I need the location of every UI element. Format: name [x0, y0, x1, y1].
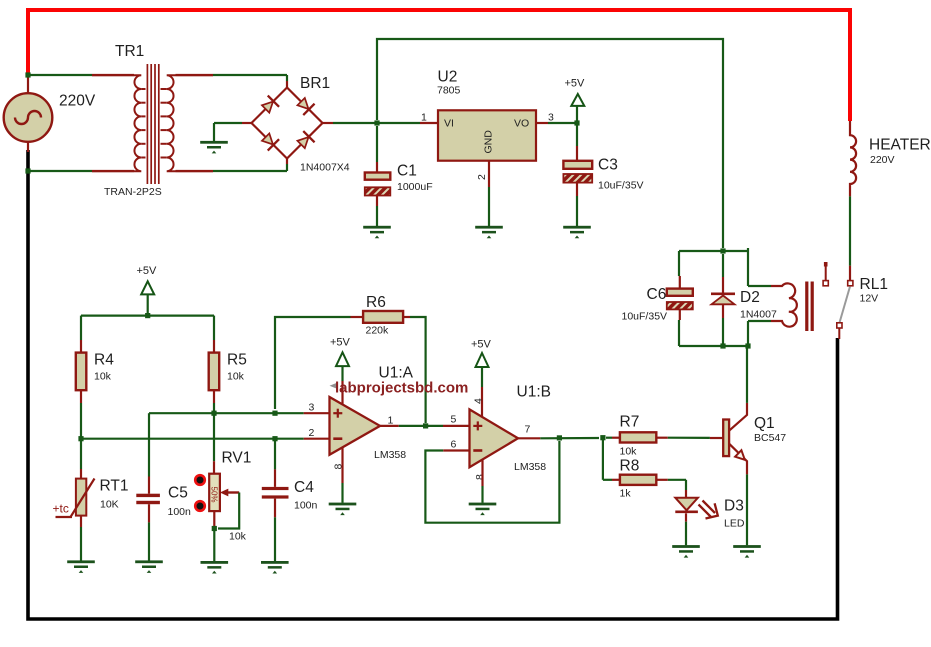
svg-text:GND: GND — [483, 130, 495, 154]
node AC bottom — [25, 168, 30, 173]
svg-text:BC547: BC547 — [754, 432, 786, 444]
core lines — [146, 64, 148, 184]
wire Q1 emitter to ground — [746, 474, 748, 545]
ground RT1 — [67, 560, 95, 573]
node R5 bottom — [211, 411, 216, 416]
ground C5 — [135, 560, 163, 573]
svg-text:2: 2 — [309, 427, 315, 439]
wire mains neutral (black) — [28, 150, 838, 619]
svg-text:BR1: BR1 — [300, 75, 330, 92]
svg-text:TR1: TR1 — [115, 43, 144, 60]
wire U1:B pin8 to ground — [481, 460, 483, 503]
node RV1 wiper junction — [212, 526, 217, 531]
svg-text:10uF/35V: 10uF/35V — [598, 180, 644, 192]
capacitor C6 10uF/35V — [622, 251, 693, 346]
svg-text:+tc: +tc — [53, 502, 69, 516]
node Q1 collector junction — [745, 343, 750, 348]
wire relay rail — [679, 250, 748, 252]
ground D3 — [672, 545, 700, 558]
svg-text:D2: D2 — [740, 289, 760, 306]
svg-text:1k: 1k — [620, 488, 632, 500]
wire relay section bottom — [679, 345, 748, 347]
wire U1:A pin8 to ground — [341, 447, 343, 502]
relay core bars — [805, 282, 808, 332]
svg-text:C5: C5 — [168, 485, 188, 502]
svg-text:12V: 12V — [860, 293, 879, 305]
ground U2 — [475, 226, 503, 239]
secondary winding — [161, 75, 214, 171]
svg-text:HEATER: HEATER — [869, 137, 931, 154]
power +5V above U1:B — [471, 339, 492, 418]
svg-text:3: 3 — [309, 402, 315, 414]
svg-text:C6: C6 — [647, 286, 667, 303]
op-amp U1:A LM358 — [309, 365, 414, 470]
wire U2 GND pin 2 — [488, 161, 490, 226]
svg-text:100n: 100n — [168, 506, 192, 518]
LED D3 — [675, 480, 745, 546]
svg-text:220k: 220k — [366, 325, 390, 337]
capacitor C3 10uF/35V — [563, 123, 643, 226]
svg-text:U1:B: U1:B — [517, 384, 551, 401]
svg-text:Q1: Q1 — [754, 415, 775, 432]
svg-text:8: 8 — [474, 474, 486, 480]
node +5V rail — [145, 313, 150, 318]
wire relay coil top — [748, 248, 771, 286]
thermistor RT1 10K — [53, 439, 129, 561]
ground C4 — [261, 561, 289, 574]
ground bridge — [200, 141, 228, 154]
ground C3 — [563, 226, 591, 239]
node pin1/pin5 junction — [423, 423, 428, 428]
relay RL1 coil — [771, 276, 888, 331]
resistor R7 10k — [606, 414, 723, 458]
primary winding — [92, 75, 146, 171]
ground U1:B — [469, 503, 497, 515]
svg-text:R5: R5 — [227, 352, 247, 369]
svg-text:U2: U2 — [438, 69, 458, 86]
node R7/R8 junction — [600, 435, 605, 440]
svg-text:VO: VO — [514, 118, 529, 130]
svg-text:+5V: +5V — [330, 337, 351, 349]
wire U1:B feedback loop — [425, 441, 559, 523]
diode BR1 lower-left — [260, 131, 279, 150]
svg-text:RV1: RV1 — [222, 450, 252, 467]
ground C1 — [363, 226, 391, 239]
svg-text:10K: 10K — [100, 499, 119, 511]
resistor R6 220k — [351, 294, 411, 337]
regulator U2 7805 — [421, 69, 554, 181]
wire U1:A out to U1:B pin5 — [380, 425, 470, 427]
power +5V above U1:A — [330, 337, 351, 405]
power +5V above C3 — [565, 78, 586, 124]
heater element 220V — [850, 121, 931, 196]
svg-text:10k: 10k — [94, 371, 112, 383]
svg-text:7805: 7805 — [437, 85, 461, 97]
wire Q1 collector — [746, 346, 748, 403]
svg-text:220V: 220V — [870, 154, 895, 166]
svg-text:1N4007X4: 1N4007X4 — [300, 162, 350, 174]
svg-text:3: 3 — [548, 112, 554, 124]
relay RL1 switch — [823, 262, 853, 339]
wire secondary bottom to bridge — [176, 158, 288, 171]
node R6 left leg — [272, 411, 277, 416]
wire secondary top to bridge — [176, 75, 288, 88]
svg-text:1N4007: 1N4007 — [740, 309, 777, 321]
watermark labprojectsbd.com — [330, 380, 469, 397]
wire relay coil bottom — [748, 321, 771, 346]
capacitor C4 100n — [262, 439, 318, 561]
svg-text:7: 7 — [525, 424, 531, 436]
svg-text:4: 4 — [473, 398, 485, 404]
power +5V above R4/R5 rail — [137, 265, 158, 316]
wire heater to relay common — [849, 196, 851, 281]
ground RV1 — [201, 561, 229, 574]
svg-text:1: 1 — [421, 112, 427, 124]
ground U1:A — [329, 503, 357, 515]
svg-text:LM358: LM358 — [514, 461, 546, 473]
svg-text:R8: R8 — [620, 458, 640, 475]
wire AC top to transformer — [28, 74, 134, 76]
node C1/VI junction — [374, 120, 379, 125]
svg-text:R6: R6 — [366, 294, 386, 311]
svg-text:10k: 10k — [227, 371, 245, 383]
svg-text:C3: C3 — [598, 157, 618, 174]
svg-text:C1: C1 — [397, 163, 417, 180]
ground Q1 emitter — [733, 545, 761, 558]
wire U1:B output — [518, 437, 599, 439]
svg-text:RL1: RL1 — [860, 276, 888, 293]
svg-text:100n: 100n — [294, 500, 318, 512]
resistor R4 10k — [76, 316, 114, 439]
svg-text:+5V: +5V — [565, 78, 586, 90]
node relay rail junction — [720, 248, 725, 253]
svg-text:VI: VI — [444, 118, 454, 130]
svg-text:+5V: +5V — [471, 339, 492, 351]
diode BR1 lower-right — [295, 131, 314, 150]
node D2 bottom junction — [720, 343, 725, 348]
wire R6 right leg — [410, 317, 426, 423]
AC source V1 220V — [4, 76, 96, 152]
svg-text:6: 6 — [451, 439, 457, 451]
wire mains live (red) — [28, 10, 850, 121]
transformer TR1 — [92, 43, 213, 198]
svg-text:220V: 220V — [59, 93, 96, 110]
capacitor C5 100n — [136, 477, 191, 561]
node R4 bottom — [78, 436, 83, 441]
svg-text:LM358: LM358 — [374, 449, 406, 461]
svg-text:RT1: RT1 — [100, 478, 129, 495]
svg-text:U1:A: U1:A — [379, 365, 414, 382]
node C4 top — [272, 436, 277, 441]
svg-text:R4: R4 — [94, 352, 114, 369]
wire bridge output to U2 VI — [323, 122, 439, 124]
wire +5V rail R4-R5 — [81, 315, 214, 317]
wire U2 VO to +5V node — [536, 122, 577, 124]
svg-text:10k: 10k — [620, 446, 638, 458]
resistor R8 1k — [603, 438, 686, 500]
bridge rectifier BR1 — [252, 75, 350, 174]
node AC top — [25, 72, 30, 77]
svg-text:2: 2 — [476, 174, 488, 180]
capacitor C1 1000uF — [365, 126, 433, 226]
op-amp U1:B LM358 — [451, 384, 551, 481]
wire AC bottom to transformer — [28, 170, 134, 172]
transistor Q1 BC547 — [723, 403, 786, 475]
svg-text:1: 1 — [388, 415, 394, 427]
svg-text:LED: LED — [724, 518, 745, 530]
resistor R5 10k — [209, 316, 247, 414]
wire R6 left leg — [275, 317, 351, 409]
diode BR1 upper-left — [260, 96, 279, 115]
svg-text:10k: 10k — [229, 531, 247, 543]
wire DC rail to relay section — [377, 39, 723, 248]
node U1:B feedback junction — [557, 435, 562, 440]
wire bridge left to ground — [214, 123, 252, 141]
wire op-amp pin3 net — [149, 413, 330, 476]
svg-text:5: 5 — [451, 414, 457, 426]
svg-text:D3: D3 — [724, 498, 744, 515]
wire op-amp pin2 net — [81, 438, 330, 440]
svg-text:C4: C4 — [294, 479, 314, 496]
wire U1:B pin6 — [443, 449, 469, 451]
svg-text:R7: R7 — [620, 414, 640, 431]
svg-text:1000uF: 1000uF — [397, 181, 433, 193]
svg-text:+5V: +5V — [137, 265, 158, 277]
diode D2 1N4007 — [711, 254, 777, 346]
svg-text:labprojectsbd.com: labprojectsbd.com — [335, 380, 468, 397]
svg-text:50%: 50% — [210, 487, 219, 503]
svg-text:TRAN-2P2S: TRAN-2P2S — [104, 186, 162, 198]
diode BR1 upper-right — [295, 96, 314, 115]
svg-text:10uF/35V: 10uF/35V — [622, 311, 668, 323]
potentiometer RV1 10k — [195, 413, 251, 561]
node VO junction — [574, 120, 579, 125]
